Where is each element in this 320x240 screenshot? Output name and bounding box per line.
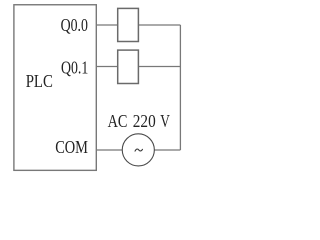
svg-text:220: 220 xyxy=(133,111,156,131)
svg-text:Q0.0: Q0.0 xyxy=(61,15,88,35)
svg-text:Q0.1: Q0.1 xyxy=(61,58,88,78)
svg-text:V: V xyxy=(160,111,170,131)
svg-text:PLC: PLC xyxy=(26,71,53,91)
svg-text:AC: AC xyxy=(108,111,128,131)
svg-text:COM: COM xyxy=(55,137,88,157)
